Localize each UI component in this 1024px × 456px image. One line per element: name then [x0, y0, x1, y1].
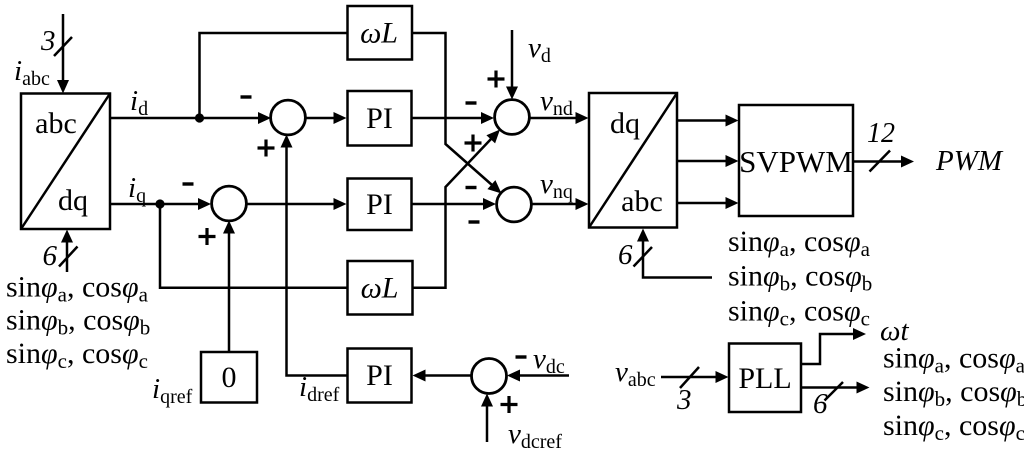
- minus sign at i_q sum input: [183, 182, 194, 185]
- svg-text:vnq: vnq: [540, 168, 573, 203]
- svg-text:3: 3: [40, 25, 56, 57]
- svg-text:vnd: vnd: [540, 85, 573, 120]
- block PLL: [729, 344, 801, 413]
- svg-text:sinφb, cosφb: sinφb, cosφb: [6, 304, 150, 340]
- slash 3 on v_abc wire: [680, 367, 699, 388]
- wire i_d: [110, 112, 271, 124]
- svg-text:PI: PI: [366, 359, 393, 392]
- svg-text:iabc: iabc: [14, 55, 50, 90]
- svg-text:0: 0: [222, 361, 237, 394]
- wire v_abc to PLL: [661, 371, 729, 383]
- plus sign at v_d input: [488, 71, 505, 88]
- wire 0 to C2: [223, 221, 235, 353]
- sum junction C2 (i_q error): [212, 186, 247, 221]
- svg-text:iq: iq: [128, 172, 146, 207]
- wire PI bottom to C1 (i_dref): [281, 135, 348, 376]
- minus sign at cross input of sum v_nq: [466, 186, 477, 189]
- wire PI top to sum v_nd: [412, 112, 495, 124]
- svg-text:vabc: vabc: [615, 356, 656, 391]
- svg-text:ωL: ωL: [360, 17, 398, 50]
- sum junction C3 (v_nd): [495, 100, 530, 135]
- plus sign at cross input of sum v_nd: [465, 135, 482, 152]
- slash 6 on abc/dq feed: [59, 247, 78, 267]
- minus sign at i_d sum input: [241, 95, 252, 98]
- sum junction C5 (v_dc error): [472, 359, 507, 394]
- svg-text:SVPWM: SVPWM: [739, 144, 853, 179]
- wire PLL out wt: [801, 328, 866, 364]
- wire PI mid to sum v_nq: [412, 198, 497, 210]
- block abc/dq transform: [21, 94, 110, 230]
- wire dq/abc out 2: [677, 155, 739, 167]
- wire C1 to PI top: [305, 112, 347, 124]
- wire C4 to dq/abc: [531, 198, 589, 210]
- block SVPWM: [739, 105, 853, 216]
- wire node to wL top: [200, 33, 348, 118]
- svg-text:iqref: iqref: [152, 373, 193, 408]
- svg-text:sinφa, cosφa: sinφa, cosφa: [883, 342, 1024, 378]
- svg-text:vdcref: vdcref: [508, 418, 562, 453]
- block wL bottom: [348, 261, 413, 315]
- svg-text:abc: abc: [621, 185, 663, 218]
- wire wL bottom to cross-coupling into sum v_nd: [413, 130, 501, 288]
- slash 3-phase on i_abc: [54, 37, 72, 56]
- wire 6 sin/cos into abc/dq bottom: [61, 230, 73, 273]
- svg-text:PWM: PWM: [935, 145, 1004, 177]
- minus sign below v_nq sum input: [469, 220, 480, 223]
- wire dq/abc out 3: [677, 197, 739, 209]
- block wL top: [348, 6, 413, 60]
- wire node to wL bottom: [160, 204, 348, 288]
- wire dq/abc out 1: [677, 115, 739, 127]
- node on i_q line: [155, 199, 164, 208]
- svg-text:12: 12: [867, 118, 895, 149]
- svg-text:abc: abc: [35, 107, 77, 140]
- minus sign at v_nd sum input: [466, 101, 477, 104]
- svg-text:vd: vd: [528, 32, 551, 67]
- wire i_abc input: [57, 14, 69, 94]
- svg-text:sinφc, cosφc: sinφc, cosφc: [883, 409, 1024, 445]
- svg-text:PI: PI: [366, 102, 393, 135]
- wire C3 to dq/abc with label v_nd: [529, 112, 589, 124]
- wire SVPWM to PWM: [853, 156, 914, 168]
- svg-text:sinφc, cosφc: sinφc, cosφc: [728, 295, 870, 331]
- wire C5 to PI bottom: [413, 370, 472, 382]
- wire 6 sin/cos into dq/abc bottom: [637, 229, 712, 278]
- slash 12 on PWM wire: [870, 151, 891, 172]
- svg-text:6: 6: [618, 239, 633, 271]
- svg-text:sinφc, cosφc: sinφc, cosφc: [6, 337, 148, 373]
- svg-text:sinφa, cosφa: sinφa, cosφa: [728, 225, 871, 261]
- wire v_dc input: [507, 370, 569, 382]
- slash 6 on PLL output: [825, 382, 844, 401]
- wire i_q: [110, 198, 211, 210]
- plus sign below C2: [199, 228, 216, 245]
- svg-text:3: 3: [676, 384, 692, 416]
- svg-text:PI: PI: [366, 188, 393, 221]
- block PI top: [348, 91, 412, 146]
- svg-text:sinφa, cosφa: sinφa, cosφa: [6, 271, 149, 307]
- svg-text:vdc: vdc: [533, 343, 565, 378]
- svg-text:dq: dq: [58, 184, 88, 217]
- node on i_d line: [195, 113, 204, 122]
- block 0 (i_qref): [201, 352, 257, 403]
- wire C2 to PI mid: [246, 198, 347, 210]
- slash 6 on dq/abc feed: [634, 247, 653, 267]
- block PI bottom: [348, 349, 412, 403]
- block dq/abc transform: [589, 93, 677, 228]
- minus sign at v_dc input: [516, 355, 527, 358]
- block PI mid: [348, 179, 412, 231]
- svg-text:6: 6: [43, 240, 58, 272]
- wire v_dcref input: [481, 394, 493, 443]
- svg-text:id: id: [130, 85, 148, 120]
- wire PLL out 6 sin/cos: [801, 382, 870, 394]
- svg-text:dq: dq: [610, 107, 640, 140]
- sum junction C4 (v_nq): [497, 187, 532, 222]
- svg-text:PLL: PLL: [738, 362, 791, 395]
- svg-text:sinφb, cosφb: sinφb, cosφb: [728, 260, 872, 296]
- plus sign below C1: [258, 140, 275, 157]
- svg-text:ωL: ωL: [361, 272, 399, 305]
- plus sign at v_dcref input: [501, 396, 518, 413]
- svg-text:sinφb, cosφb: sinφb, cosφb: [883, 375, 1024, 411]
- wire wL top to cross-coupling into sum v_nq: [412, 33, 502, 194]
- wire v_d input: [506, 30, 518, 100]
- sum junction C1 (i_d error): [271, 100, 306, 135]
- svg-text:6: 6: [813, 388, 828, 420]
